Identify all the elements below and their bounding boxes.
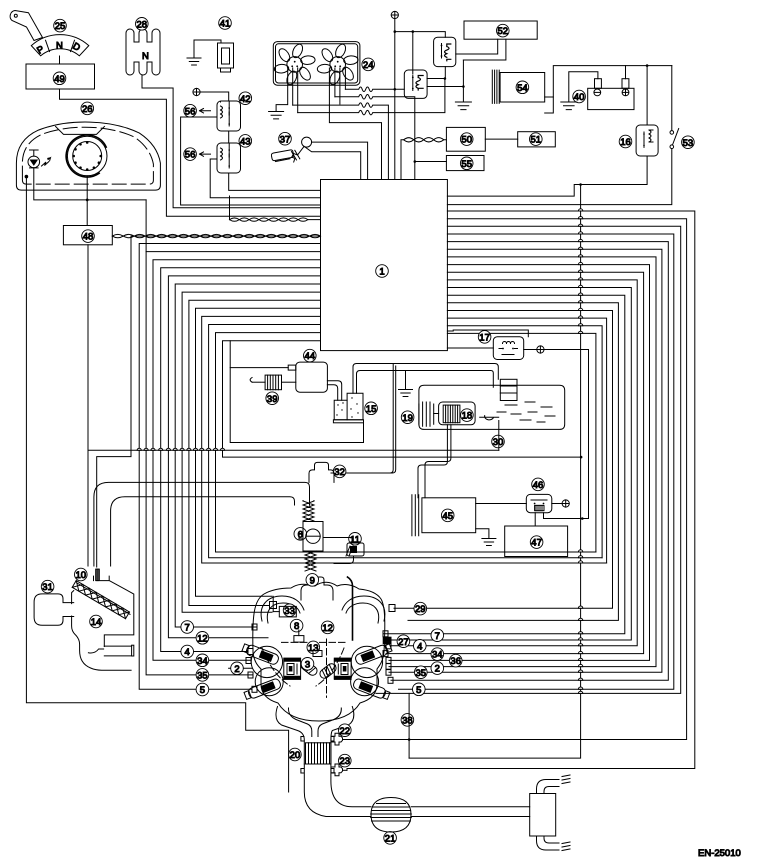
intake port block left <box>284 658 301 679</box>
svg-text:56: 56 <box>185 150 196 161</box>
callout 18 <box>461 409 474 422</box>
svg-text:44: 44 <box>305 351 316 362</box>
fan relay A <box>434 37 456 66</box>
purge wire hops <box>137 448 224 450</box>
svg-text:32: 32 <box>334 467 345 478</box>
svg-text:EN-25010: EN-25010 <box>698 848 741 859</box>
right callouts <box>414 602 427 615</box>
shift gate 28 <box>126 29 160 75</box>
42 coil wire <box>181 117 321 205</box>
38 wire vertical <box>401 714 414 727</box>
wire 44 to harness frame <box>230 367 288 369</box>
sensor 33 <box>283 604 296 617</box>
svg-text:3: 3 <box>305 659 310 670</box>
o2 sensor 22 <box>339 724 352 737</box>
engine block outline <box>253 582 385 721</box>
fan2 wires <box>329 68 381 180</box>
dashed lines <box>282 641 346 643</box>
callout 19 <box>401 411 414 424</box>
fuel damper 13 <box>307 641 320 654</box>
wire 55 to ECU top <box>415 162 447 180</box>
wires 52 down <box>456 39 498 54</box>
svg-text:7: 7 <box>185 623 190 634</box>
callout 40 <box>573 90 586 103</box>
cylinder RB <box>351 668 391 701</box>
relay 16 <box>636 125 658 156</box>
harness thick line <box>348 577 353 640</box>
bellows lower to manifold <box>305 551 316 571</box>
pipe muffler to rear <box>411 807 530 817</box>
component 54 alternator <box>500 73 545 103</box>
tank area ground <box>399 372 413 397</box>
svg-text:19: 19 <box>402 413 413 424</box>
battery 40 <box>588 88 634 109</box>
wire 49 down right <box>60 89 321 216</box>
box 51 <box>518 132 556 147</box>
accelerator pedal 37 <box>279 132 292 145</box>
svg-text:18: 18 <box>462 411 473 422</box>
3 circle <box>301 658 314 671</box>
svg-text:9: 9 <box>310 576 315 587</box>
svg-text:2: 2 <box>234 664 239 675</box>
callout 49 <box>53 72 66 85</box>
callout 24 <box>362 58 375 71</box>
o2 sensor 23 <box>339 754 352 767</box>
plus node 17 <box>537 346 544 353</box>
callout 2 <box>431 662 444 675</box>
callout 47 <box>530 536 543 549</box>
callout 35 <box>415 666 428 679</box>
wavy wire to 50 <box>401 140 404 180</box>
canister 15 <box>334 393 363 420</box>
wire 41 to ground <box>194 40 221 58</box>
manifold runners <box>261 596 304 623</box>
exhaust: y-pipe and catalyst 20 <box>289 748 302 761</box>
ticked vertical power line <box>409 185 580 759</box>
svg-text:26: 26 <box>82 104 93 115</box>
wire 45 to 46 <box>476 503 527 505</box>
svg-text:42: 42 <box>240 94 251 105</box>
callout 34 <box>431 648 444 661</box>
warning lamp symbol <box>28 156 40 168</box>
wire 17 plus down to 46 <box>544 350 589 519</box>
air temp sensor 32 <box>333 465 346 478</box>
bellows upper <box>303 501 314 522</box>
svg-text:50: 50 <box>461 135 472 146</box>
callout 45 <box>441 509 454 522</box>
svg-text:35: 35 <box>197 671 208 682</box>
wire 2 left <box>229 667 252 669</box>
tachometer gauge <box>67 136 107 176</box>
muffler 21 <box>384 832 397 845</box>
ground 45 <box>476 529 489 539</box>
svg-text:2: 2 <box>435 664 440 675</box>
unit 45 <box>422 498 476 533</box>
svg-text:35: 35 <box>416 668 427 679</box>
svg-text:46: 46 <box>533 480 544 491</box>
svg-text:23: 23 <box>340 756 351 767</box>
right bundle nested wires <box>347 211 695 769</box>
callout 5 <box>413 683 426 696</box>
link 42-43 contacts <box>228 131 230 143</box>
fan 2 <box>313 39 362 90</box>
radiator fan assembly 24 <box>273 42 360 86</box>
valve 46 <box>532 478 545 491</box>
cylinder LB <box>243 668 283 701</box>
callout 36 <box>449 654 462 667</box>
braided wire A <box>230 218 321 221</box>
wire gauge down <box>86 176 88 226</box>
56 arrow a <box>184 104 197 117</box>
ground (fan relays) <box>455 102 471 110</box>
svg-text:53: 53 <box>683 138 694 149</box>
svg-text:45: 45 <box>442 511 453 522</box>
left callouts <box>181 621 194 634</box>
idle air valve 11 <box>349 533 362 546</box>
left edge connector stubs <box>252 624 257 630</box>
callout 5 <box>196 683 209 696</box>
svg-text:12: 12 <box>322 623 333 634</box>
callout 51 <box>530 133 543 146</box>
callout 53 <box>682 136 695 149</box>
rear silencer <box>530 794 556 837</box>
box 49 inhibitor switch <box>26 64 95 89</box>
svg-text:27: 27 <box>398 637 409 648</box>
callout 1 <box>376 265 389 278</box>
svg-text:5: 5 <box>416 685 421 696</box>
filler pump module <box>500 379 517 400</box>
plus node (42) <box>193 88 200 95</box>
fuel tank <box>419 385 565 429</box>
svg-text:24: 24 <box>363 60 374 71</box>
injectors center <box>299 659 319 677</box>
svg-text:31: 31 <box>42 582 53 593</box>
ground (fans) <box>269 112 284 119</box>
throttle body 6 <box>294 528 307 541</box>
relay 17 <box>478 331 491 344</box>
wire plus down <box>394 19 396 180</box>
svg-text:14: 14 <box>91 617 102 628</box>
wire frame around 44/39/15 <box>230 341 363 443</box>
cluster body <box>16 122 160 190</box>
callout 39 <box>266 392 279 405</box>
callout 14 <box>90 615 103 628</box>
braided wire 48 to ECU <box>112 234 320 237</box>
svg-text:10: 10 <box>76 570 87 581</box>
wire N to box49 <box>59 56 61 64</box>
svg-text:48: 48 <box>83 232 94 243</box>
switch 53 <box>670 131 674 135</box>
purge wire 48 to 30 valve <box>88 449 499 451</box>
wire 39-44 <box>282 381 296 383</box>
svg-text:54: 54 <box>517 83 528 94</box>
wire to switch 53 <box>671 66 673 131</box>
MAF element <box>96 569 100 581</box>
fan relay B <box>404 70 427 98</box>
ECU box 1 <box>321 180 448 351</box>
relay A bottom to relay B coil <box>427 67 445 79</box>
plus node top <box>391 11 398 18</box>
relay 42 <box>217 101 241 131</box>
30 wire to power line <box>580 456 583 459</box>
svg-text:17: 17 <box>479 333 490 344</box>
manifold plenum <box>301 577 333 600</box>
air duct to throttle <box>94 482 310 566</box>
cluster top trapezoid <box>56 126 105 134</box>
54 output wire <box>545 97 554 113</box>
ECU feeds to relay 17 <box>447 330 528 337</box>
fan 1 <box>270 39 319 90</box>
catalyst element <box>306 743 331 764</box>
box 50 <box>446 127 485 151</box>
unit 47 <box>505 526 568 557</box>
svg-text:15: 15 <box>366 404 377 415</box>
cylinder RT <box>351 642 392 677</box>
callout 42 <box>239 92 252 105</box>
intake port block right <box>334 658 351 679</box>
12 right circle <box>321 621 334 634</box>
pipe to muffler <box>304 764 371 817</box>
relay16 wire to ECU right edge <box>447 156 647 196</box>
box 55 <box>446 156 484 171</box>
callout 48 <box>82 230 95 243</box>
svg-text:49: 49 <box>54 74 65 85</box>
pump wires to 45 <box>418 425 451 498</box>
svg-text:40: 40 <box>574 92 585 103</box>
svg-text:47: 47 <box>531 538 542 549</box>
ground (41) <box>187 58 201 65</box>
callout 50 <box>460 133 473 146</box>
callout 43 <box>239 135 252 148</box>
callout 55 <box>460 157 473 170</box>
callout 41 <box>219 17 232 30</box>
svg-text:N: N <box>142 51 149 62</box>
svg-text:4: 4 <box>185 647 190 658</box>
fuel level dashes <box>497 402 555 422</box>
svg-text:N: N <box>56 41 63 52</box>
air cleaner slanted filter band <box>72 581 129 619</box>
sensor 9 <box>306 574 319 587</box>
relay 43 <box>217 143 241 173</box>
plus 46 <box>562 500 569 507</box>
svg-text:1: 1 <box>379 267 384 278</box>
relay B coil lower to ground rail <box>427 86 463 88</box>
wire 48 down to purge line <box>87 245 89 450</box>
fan1 wires <box>276 67 288 112</box>
callout 25 <box>54 19 67 32</box>
svg-text:29: 29 <box>415 604 426 615</box>
battery plus wire <box>625 66 627 79</box>
svg-text:28: 28 <box>137 19 148 30</box>
callout 34 <box>196 654 209 667</box>
cluster node dot <box>25 175 29 179</box>
wire cluster dot down-long <box>26 178 288 792</box>
purge hose canister to tank line <box>353 364 498 394</box>
callout 27 <box>397 635 410 648</box>
callout 12 <box>196 632 209 645</box>
svg-text:36: 36 <box>450 656 461 667</box>
flanges <box>301 737 334 774</box>
wire to relay 16 <box>646 66 648 125</box>
svg-text:38: 38 <box>402 716 413 727</box>
air cleaner housing <box>72 576 134 670</box>
svg-text:22: 22 <box>340 726 351 737</box>
pressure sources / MAP sensor 44 <box>304 349 317 362</box>
svg-text:52: 52 <box>498 26 509 37</box>
callout 2 <box>231 662 244 675</box>
callout 16 <box>619 135 632 148</box>
wire lamp down to bus <box>34 168 146 200</box>
wire hop bumps over power line <box>578 209 582 694</box>
callout 30 <box>492 435 505 448</box>
MAF wire x131 <box>97 236 321 567</box>
svg-text:5: 5 <box>200 685 205 696</box>
svg-text:21: 21 <box>385 834 396 845</box>
callout 4 <box>414 640 427 653</box>
callout 52 <box>497 24 510 37</box>
motor 39 <box>265 375 281 390</box>
shift lever <box>10 11 42 41</box>
43 contact bottom wire <box>229 173 321 190</box>
valve 30 <box>480 415 499 420</box>
hose 44 to canister <box>327 381 341 401</box>
svg-text:7: 7 <box>435 631 440 642</box>
fuel filter 19 <box>419 402 434 426</box>
wire 28 down <box>142 75 321 208</box>
svg-text:51: 51 <box>531 135 542 146</box>
box 48 <box>63 226 112 245</box>
svg-text:30: 30 <box>493 437 504 448</box>
svg-text:37: 37 <box>280 134 291 145</box>
instrument cluster 26 <box>81 102 94 115</box>
callout 54 <box>516 81 529 94</box>
callout 28 <box>136 18 149 31</box>
56 arrow b <box>184 148 197 161</box>
component 27 black <box>383 637 392 645</box>
left bundle nested wires <box>139 244 606 690</box>
box 52 <box>464 21 537 39</box>
callout 35 <box>196 669 209 682</box>
svg-text:39: 39 <box>267 394 278 405</box>
fuel pump assembly 18 <box>439 402 476 425</box>
svg-text:56: 56 <box>185 106 196 117</box>
callout 15 <box>365 402 378 415</box>
svg-text:34: 34 <box>197 656 208 667</box>
svg-text:34: 34 <box>432 650 443 661</box>
svg-text:12: 12 <box>197 633 208 644</box>
svg-text:43: 43 <box>240 137 251 148</box>
battery minus to ground <box>569 72 598 102</box>
right edge connector stubs <box>389 605 395 612</box>
43 coil wire <box>210 159 320 198</box>
selector arc P N D <box>31 35 89 56</box>
svg-text:55: 55 <box>461 159 472 170</box>
wires below 16/53 <box>447 149 671 205</box>
33 stem connector <box>270 602 277 609</box>
connector 8 <box>290 619 303 632</box>
callout 4 <box>181 645 194 658</box>
svg-text:4: 4 <box>417 641 422 652</box>
wavy link wires to relays <box>345 87 404 92</box>
top rail to fan relays <box>395 32 446 38</box>
svg-text:41: 41 <box>220 19 231 30</box>
svg-text:25: 25 <box>55 21 66 32</box>
svg-text:20: 20 <box>290 750 301 761</box>
svg-text:16: 16 <box>620 137 631 148</box>
component 41 <box>218 43 234 68</box>
callout 7 <box>431 629 444 642</box>
air cleaner 14 <box>75 568 88 581</box>
svg-text:33: 33 <box>284 606 295 617</box>
cylinder LT <box>241 642 282 677</box>
pedal wires <box>312 142 368 179</box>
resonator 31 <box>41 580 54 593</box>
